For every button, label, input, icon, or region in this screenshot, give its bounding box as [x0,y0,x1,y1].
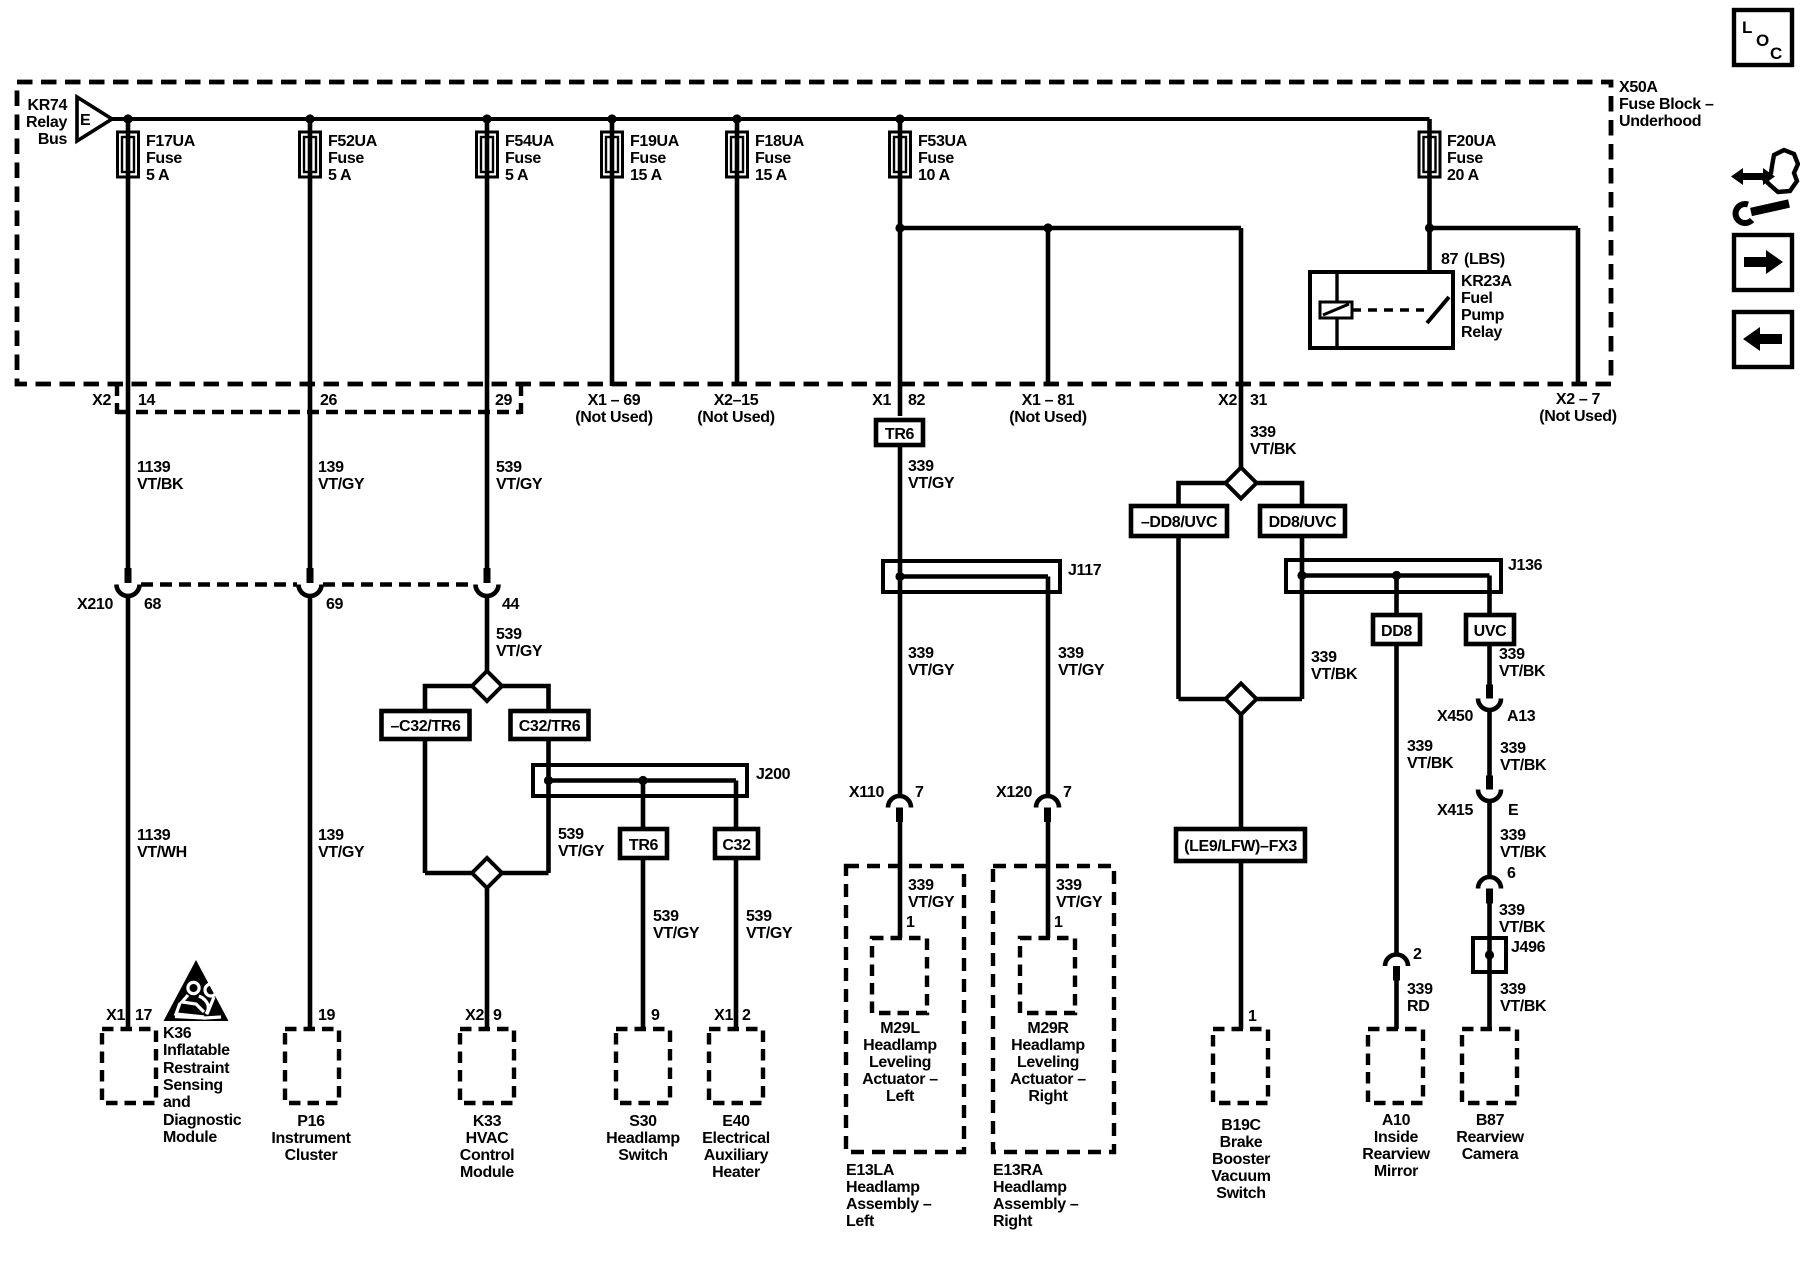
svg-text:Rearview: Rearview [1362,1146,1430,1163]
svg-text:20 A: 20 A [1447,167,1480,184]
svg-text:Vacuum: Vacuum [1211,1168,1270,1185]
svg-text:339: 339 [1500,981,1526,998]
svg-text:X110: X110 [849,784,885,801]
svg-text:Bus: Bus [38,131,68,148]
svg-text:VT/BK: VT/BK [137,476,184,493]
svg-text:139: 139 [318,459,344,476]
svg-text:29: 29 [495,392,513,409]
svg-text:Auxiliary: Auxiliary [704,1147,769,1164]
svg-text:C32/TR6: C32/TR6 [519,718,581,735]
svg-text:X2: X2 [92,392,111,409]
svg-text:Electrical: Electrical [702,1130,770,1147]
svg-text:(LBS): (LBS) [1464,251,1505,268]
svg-text:Module: Module [460,1164,514,1181]
svg-text:Fuse: Fuse [918,150,954,167]
svg-text:J117: J117 [1068,562,1102,579]
svg-text:P16: P16 [297,1113,325,1130]
svg-text:339: 339 [1056,877,1082,894]
svg-text:(Not Used): (Not Used) [575,409,652,426]
svg-text:–DD8/UVC: –DD8/UVC [1141,514,1218,531]
svg-text:X2–15: X2–15 [714,392,759,409]
svg-text:VT/GY: VT/GY [908,894,955,911]
svg-text:Leveling: Leveling [869,1054,931,1071]
svg-text:(Not Used): (Not Used) [697,409,774,426]
svg-text:F19UA: F19UA [630,133,680,150]
svg-text:HVAC: HVAC [466,1130,510,1147]
svg-text:339: 339 [908,877,934,894]
svg-text:5 A: 5 A [328,167,352,184]
svg-text:Fuse Block –: Fuse Block – [1619,96,1714,113]
svg-text:(Not Used): (Not Used) [1009,409,1086,426]
svg-text:9: 9 [493,1007,502,1024]
svg-text:F53UA: F53UA [918,133,968,150]
svg-text:X1: X1 [872,392,891,409]
svg-text:1: 1 [1054,914,1063,931]
svg-text:68: 68 [144,596,162,613]
svg-text:Fuse: Fuse [755,150,791,167]
svg-text:17: 17 [135,1007,153,1024]
svg-text:F18UA: F18UA [755,133,805,150]
svg-text:Relay: Relay [26,114,67,131]
svg-text:339: 339 [908,645,934,662]
svg-text:–C32/TR6: –C32/TR6 [390,718,461,735]
svg-text:L: L [1742,18,1752,37]
svg-text:E: E [80,112,91,129]
svg-text:Right: Right [1028,1088,1068,1105]
svg-text:VT/GY: VT/GY [496,643,543,660]
svg-text:339: 339 [1407,981,1433,998]
svg-text:VT/GY: VT/GY [558,843,605,860]
svg-text:6: 6 [1507,865,1516,882]
svg-text:7: 7 [915,784,924,801]
svg-text:Headlamp: Headlamp [846,1179,920,1196]
svg-text:339: 339 [1058,645,1084,662]
svg-text:B87: B87 [1476,1112,1505,1129]
svg-text:K36: K36 [163,1025,192,1042]
svg-text:VT/GY: VT/GY [1056,894,1103,911]
svg-text:339: 339 [908,458,934,475]
svg-text:339: 339 [1311,649,1337,666]
svg-text:X450: X450 [1437,708,1473,725]
svg-text:Diagnostic: Diagnostic [163,1112,242,1129]
svg-text:VT/GY: VT/GY [653,925,700,942]
svg-text:Actuator –: Actuator – [862,1071,938,1088]
svg-text:M29R: M29R [1027,1020,1069,1037]
svg-text:Fuse: Fuse [146,150,182,167]
svg-text:Inflatable: Inflatable [163,1042,230,1059]
svg-text:Left: Left [846,1213,875,1230]
svg-text:Restraint: Restraint [163,1060,230,1077]
svg-text:Headlamp: Headlamp [1011,1037,1085,1054]
svg-text:539: 539 [653,908,679,925]
svg-text:VT/GY: VT/GY [318,476,365,493]
svg-text:X1 – 69: X1 – 69 [588,392,641,409]
svg-text:VT/GY: VT/GY [908,475,955,492]
svg-text:VT/GY: VT/GY [496,476,543,493]
svg-text:2: 2 [742,1007,751,1024]
svg-text:339: 339 [1500,740,1526,757]
svg-text:339: 339 [1500,827,1526,844]
svg-text:M29L: M29L [880,1020,920,1037]
svg-text:E: E [1508,802,1519,819]
svg-text:Inside: Inside [1374,1129,1419,1146]
svg-text:C: C [1770,44,1782,63]
svg-text:9: 9 [651,1007,660,1024]
svg-text:539: 539 [496,459,522,476]
svg-text:TR6: TR6 [885,426,915,443]
svg-text:KR23A: KR23A [1461,273,1513,290]
svg-text:VT/WH: VT/WH [137,844,187,861]
svg-text:VT/GY: VT/GY [318,844,365,861]
svg-text:B19C: B19C [1221,1117,1261,1134]
svg-text:1139: 1139 [137,459,171,476]
svg-text:VT/BK: VT/BK [1407,755,1454,772]
svg-text:5 A: 5 A [146,167,170,184]
svg-text:539: 539 [558,826,584,843]
svg-text:Underhood: Underhood [1619,113,1701,130]
svg-text:F52UA: F52UA [328,133,378,150]
svg-text:Cluster: Cluster [285,1147,338,1164]
svg-text:7: 7 [1063,784,1072,801]
svg-text:31: 31 [1250,392,1268,409]
svg-text:S30: S30 [629,1113,657,1130]
svg-text:TR6: TR6 [629,837,659,854]
svg-text:Fuse: Fuse [505,150,541,167]
svg-text:82: 82 [908,392,926,409]
svg-text:E40: E40 [722,1113,750,1130]
svg-text:F17UA: F17UA [146,133,196,150]
svg-text:KR74: KR74 [27,97,67,114]
svg-text:Relay: Relay [1461,324,1502,341]
svg-text:139: 139 [318,827,344,844]
svg-text:Mirror: Mirror [1374,1163,1418,1180]
svg-text:VT/GY: VT/GY [1058,662,1105,679]
svg-text:Fuse: Fuse [328,150,364,167]
svg-text:Camera: Camera [1462,1146,1519,1163]
svg-text:X50A: X50A [1619,79,1658,96]
svg-text:539: 539 [496,626,522,643]
svg-text:Headlamp: Headlamp [993,1179,1067,1196]
svg-text:Heater: Heater [712,1164,760,1181]
svg-text:VT/BK: VT/BK [1499,919,1546,936]
svg-text:A10: A10 [1382,1112,1411,1129]
svg-text:339: 339 [1499,646,1525,663]
svg-text:Fuse: Fuse [630,150,666,167]
svg-text:E13LA: E13LA [846,1162,895,1179]
svg-text:Fuel: Fuel [1461,290,1493,307]
svg-text:339: 339 [1407,738,1433,755]
svg-text:F20UA: F20UA [1447,133,1497,150]
svg-text:Switch: Switch [618,1147,667,1164]
svg-text:87: 87 [1441,251,1459,268]
svg-text:X120: X120 [996,784,1032,801]
svg-text:Left: Left [886,1088,915,1105]
svg-text:Brake: Brake [1220,1134,1263,1151]
svg-text:J200: J200 [756,766,791,783]
svg-text:A13: A13 [1507,708,1536,725]
svg-text:69: 69 [326,596,344,613]
svg-text:Leveling: Leveling [1017,1054,1079,1071]
svg-text:Module: Module [163,1129,217,1146]
svg-text:14: 14 [138,392,156,409]
svg-text:19: 19 [318,1007,336,1024]
svg-text:44: 44 [502,596,520,613]
svg-text:Pump: Pump [1461,307,1505,324]
svg-text:VT/BK: VT/BK [1311,666,1358,683]
svg-text:J496: J496 [1511,939,1546,956]
svg-text:26: 26 [320,392,338,409]
svg-text:VT/BK: VT/BK [1500,757,1547,774]
svg-text:X415: X415 [1437,802,1473,819]
svg-text:X1: X1 [106,1007,125,1024]
svg-text:and: and [163,1094,190,1111]
svg-text:1: 1 [906,914,915,931]
svg-text:VT/BK: VT/BK [1500,844,1547,861]
svg-text:Headlamp: Headlamp [606,1130,680,1147]
svg-text:539: 539 [746,908,772,925]
svg-text:1139: 1139 [137,827,171,844]
svg-text:X1: X1 [714,1007,733,1024]
svg-text:VT/BK: VT/BK [1250,441,1297,458]
svg-text:RD: RD [1407,998,1429,1015]
svg-text:Headlamp: Headlamp [863,1037,937,1054]
svg-text:Switch: Switch [1216,1185,1265,1202]
svg-text:X2 – 7: X2 – 7 [1556,391,1601,408]
svg-text:Fuse: Fuse [1447,150,1483,167]
svg-text:X210: X210 [77,596,113,613]
svg-text:C32: C32 [722,837,751,854]
svg-text:O: O [1756,31,1769,50]
svg-text:Control: Control [460,1147,514,1164]
svg-text:Actuator –: Actuator – [1010,1071,1086,1088]
svg-text:VT/GY: VT/GY [746,925,793,942]
svg-text:F54UA: F54UA [505,133,555,150]
svg-text:Sensing: Sensing [163,1077,223,1094]
svg-text:15 A: 15 A [755,167,788,184]
svg-text:(Not Used): (Not Used) [1539,408,1616,425]
svg-text:K33: K33 [473,1113,502,1130]
svg-text:X2: X2 [1218,392,1237,409]
svg-text:DD8: DD8 [1381,623,1412,640]
svg-text:339: 339 [1499,902,1525,919]
svg-text:Rearview: Rearview [1456,1129,1524,1146]
svg-text:339: 339 [1250,424,1276,441]
svg-text:(LE9/LFW)–FX3: (LE9/LFW)–FX3 [1184,838,1297,855]
svg-text:Booster: Booster [1212,1151,1270,1168]
svg-text:Right: Right [993,1213,1033,1230]
svg-text:DD8/UVC: DD8/UVC [1269,514,1338,531]
svg-text:2: 2 [1413,946,1422,963]
svg-text:VT/BK: VT/BK [1500,998,1547,1015]
svg-text:X1 – 81: X1 – 81 [1022,392,1075,409]
svg-text:E13RA: E13RA [993,1162,1044,1179]
svg-text:10 A: 10 A [918,167,951,184]
svg-text:J136: J136 [1508,557,1543,574]
svg-text:UVC: UVC [1474,623,1508,640]
svg-text:5 A: 5 A [505,167,529,184]
svg-text:Instrument: Instrument [271,1130,351,1147]
svg-text:Assembly –: Assembly – [846,1196,932,1213]
svg-text:1: 1 [1248,1008,1257,1025]
svg-text:Assembly –: Assembly – [993,1196,1079,1213]
svg-text:X2: X2 [465,1007,484,1024]
svg-text:15 A: 15 A [630,167,663,184]
svg-text:VT/GY: VT/GY [908,662,955,679]
svg-text:VT/BK: VT/BK [1499,663,1546,680]
